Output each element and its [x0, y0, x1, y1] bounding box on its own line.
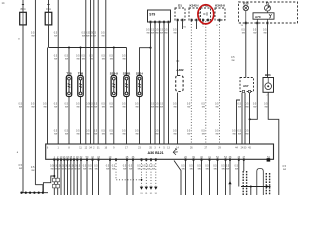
svg-text:sw: sw: [123, 168, 126, 171]
svg-text:sw: sw: [142, 168, 145, 171]
wire: [93, 0, 95, 144]
wire: [238, 161, 240, 187]
svg-text:sw: sw: [65, 58, 68, 61]
svg-text:sw: sw: [82, 58, 85, 61]
svg-text:sw: sw: [54, 133, 57, 136]
svg-text:sw: sw: [235, 168, 238, 171]
svg-text:sw: sw: [94, 133, 97, 136]
svg-text:sw: sw: [253, 106, 256, 109]
svg-text:sw: sw: [94, 106, 97, 109]
svg-text:sw: sw: [106, 168, 109, 171]
ECU bottom pins: [53, 158, 55, 161]
svg-text:sw: sw: [155, 133, 158, 136]
svg-text:sw: sw: [245, 106, 248, 109]
svg-text:sw: sw: [202, 106, 205, 109]
svg-text:sw: sw: [226, 168, 229, 171]
svg-text:sw: sw: [122, 133, 125, 136]
svg-text:D1: D1: [178, 4, 182, 8]
svg-text:sw: sw: [101, 35, 104, 38]
svg-text:sw: sw: [19, 167, 22, 170]
svg-text:sw: sw: [202, 133, 205, 136]
svg-text:sw: sw: [31, 35, 34, 38]
wire: [85, 0, 87, 144]
connector T28: [68, 48, 70, 77]
svg-text:sw: sw: [264, 106, 267, 109]
svg-text:sw: sw: [147, 168, 150, 171]
svg-text:sw: sw: [138, 168, 141, 171]
svg-text:K342-II: K342-II: [215, 4, 225, 8]
wires from S79 to ECU: [150, 23, 152, 144]
svg-text:sw: sw: [76, 58, 79, 61]
junction: [42, 192, 44, 194]
svg-text:sw: sw: [102, 133, 105, 136]
junction: [38, 192, 40, 194]
svg-text:sw: sw: [102, 106, 105, 109]
junction: [20, 192, 22, 194]
svg-text:A67: A67: [243, 84, 249, 88]
junction: [249, 118, 251, 120]
svg-text:sw: sw: [146, 32, 149, 35]
junction: [25, 192, 27, 194]
svg-text:sw: sw: [102, 58, 105, 61]
svg-text:sw: sw: [19, 106, 22, 109]
svg-text:sw: sw: [242, 32, 245, 35]
fuse F2: [48, 0, 50, 12]
wire: [97, 0, 99, 144]
connector S13-II: [113, 48, 115, 77]
svg-text:sw: sw: [86, 133, 89, 136]
svg-text:sw: sw: [160, 106, 163, 109]
cluster pins: [245, 22, 247, 25]
screened pair: [265, 173, 267, 195]
svg-text:sw: sw: [135, 133, 138, 136]
bus riser: [43, 176, 54, 193]
wire: [90, 0, 92, 144]
optional wire (dotted): [190, 21, 192, 144]
svg-text:sw: sw: [238, 106, 241, 109]
red highlight ellipse: [198, 5, 214, 24]
switch unit S79: [148, 10, 171, 22]
fuse F1: [22, 0, 24, 12]
junction: [79, 46, 81, 48]
wire: [57, 0, 59, 144]
svg-text:sw: sw: [232, 133, 235, 136]
svg-text:sw: sw: [65, 106, 68, 109]
svg-text:sw: sw: [65, 133, 68, 136]
svg-text:sw: sw: [82, 35, 85, 38]
svg-text:sw: sw: [182, 168, 185, 171]
svg-text:sw: sw: [90, 106, 93, 109]
svg-text:sw: sw: [214, 168, 217, 171]
svg-text:sw: sw: [155, 106, 158, 109]
svg-text:sw: sw: [173, 32, 176, 35]
svg-text:A70: A70: [255, 15, 261, 19]
svg-text:sw: sw: [164, 32, 167, 35]
screened pair: [242, 171, 244, 195]
sensor wire with arrow: [229, 161, 231, 196]
ground splice bus: [21, 192, 49, 194]
svg-text:sw: sw: [190, 168, 193, 171]
diagonal wire: [174, 161, 181, 196]
svg-text:sw: sw: [245, 133, 248, 136]
splice bus: [241, 186, 271, 188]
svg-text:sw: sw: [110, 133, 113, 136]
svg-text:sw: sw: [135, 106, 138, 109]
svg-text:sw: sw: [110, 58, 113, 61]
svg-text:sw: sw: [83, 168, 86, 171]
svg-text:sw: sw: [187, 133, 190, 136]
svg-text:sw: sw: [95, 168, 98, 171]
svg-text:sw: sw: [90, 58, 93, 61]
wire cluster to A67: [245, 11, 247, 23]
optional wire (dotted): [219, 21, 221, 144]
svg-text:sw: sw: [93, 35, 96, 38]
junction: [68, 46, 70, 48]
wire fuse line continues to ECU pin: [47, 48, 49, 145]
svg-text:sw: sw: [187, 106, 190, 109]
screened cable runs: [116, 161, 142, 180]
svg-text:sw: sw: [89, 168, 92, 171]
bus node from fuse F2: [49, 47, 127, 49]
svg-text:sw: sw: [238, 133, 241, 136]
svg-text:sw: sw: [151, 106, 154, 109]
instrument cluster box: [239, 2, 298, 23]
svg-text:A36 B121: A36 B121: [148, 151, 164, 155]
connector T68: [80, 48, 82, 77]
wire cluster, bends to node: [267, 24, 269, 77]
wire fuse F1 to ground bus: [22, 25, 24, 193]
svg-text:sw: sw: [215, 106, 218, 109]
svg-text:sw: sw: [110, 106, 113, 109]
svg-text:sw: sw: [76, 133, 79, 136]
junction: [53, 175, 55, 177]
connector S24B: [126, 48, 128, 77]
control unit A70: [253, 13, 274, 19]
svg-text:K342-I: K342-I: [189, 4, 198, 8]
ground wires below ECU: [53, 161, 55, 196]
inline terminals: [53, 178, 56, 182]
wire fuse F2 down to node/bus: [48, 25, 50, 48]
optional wire (dotted): [205, 21, 207, 144]
svg-text:B33: B33: [265, 73, 271, 77]
junction: [29, 192, 31, 194]
svg-text:sw: sw: [283, 168, 286, 171]
svg-text:sw: sw: [122, 106, 125, 109]
svg-text:sw: sw: [173, 133, 176, 136]
connector unit A67: [240, 78, 254, 92]
junction: [113, 46, 115, 48]
svg-text:sw: sw: [76, 106, 79, 109]
svg-text:sw: sw: [160, 32, 163, 35]
svg-text:sw: sw: [54, 106, 57, 109]
connector S13-I fed from S79 pin 1: [140, 48, 151, 76]
svg-text:sw: sw: [77, 168, 80, 171]
svg-text:sw: sw: [54, 58, 57, 61]
control unit A36 B121: [46, 144, 274, 159]
svg-text:sw: sw: [129, 168, 132, 171]
svg-text:sw: sw: [54, 35, 57, 38]
svg-text:sw: sw: [222, 168, 225, 171]
wire: [243, 161, 245, 172]
wire B33 to right bypass: [268, 92, 279, 195]
svg-text:sw: sw: [215, 133, 218, 136]
svg-text:sw: sw: [173, 106, 176, 109]
wire tick: [176, 60, 179, 62]
svg-text:sw: sw: [43, 106, 46, 109]
svg-text:sw: sw: [31, 106, 34, 109]
svg-text:sw: sw: [152, 168, 155, 171]
splice arrows: [140, 187, 143, 190]
svg-text:A482: A482: [176, 68, 184, 72]
svg-text:sw: sw: [112, 168, 115, 171]
wire loop: [257, 169, 263, 196]
wire stub: [237, 100, 241, 144]
wire with bend join: [250, 24, 258, 119]
svg-text:sw: sw: [31, 169, 34, 172]
svg-text:sw: sw: [263, 32, 266, 35]
svg-text:sw: sw: [122, 58, 125, 61]
svg-text:sw: sw: [253, 32, 256, 35]
wire bend to ground bus: [35, 185, 43, 193]
wire: [105, 0, 107, 144]
svg-text:sw: sw: [198, 168, 201, 171]
svg-text:sw: sw: [231, 59, 234, 62]
wire term 30: [34, 0, 36, 185]
svg-text:sw: sw: [151, 32, 154, 35]
svg-text:sw: sw: [206, 168, 209, 171]
svg-text:sw: sw: [155, 32, 158, 35]
connector symbol: [173, 148, 178, 155]
svg-text:S79: S79: [149, 13, 155, 17]
junction: [33, 192, 35, 194]
